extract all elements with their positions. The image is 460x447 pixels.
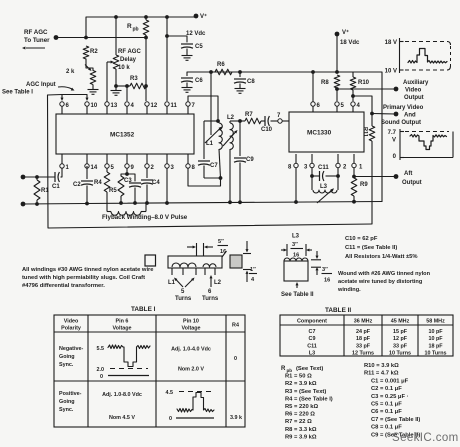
svg-text:Nom 2.0 V: Nom 2.0 V	[178, 367, 204, 373]
ground under C5	[182, 56, 193, 61]
label L1 5 turns	[168, 278, 195, 303]
svg-text:Delay: Delay	[120, 57, 137, 63]
svg-text:R1: R1	[41, 188, 49, 194]
capacitor C8	[234, 72, 255, 88]
capacitor C4	[141, 168, 160, 203]
terminal auxiliary video output	[394, 80, 429, 101]
table I	[54, 306, 245, 427]
terminal aft output	[394, 171, 422, 186]
note wound with	[337, 271, 431, 293]
svg-text:C6 = 0.1 μF: C6 = 0.1 μF	[371, 409, 402, 415]
svg-text:tuned with high permiability s: tuned with high permiability slugs. Coil…	[22, 275, 145, 281]
wire pin2 drop	[336, 168, 340, 178]
svg-text:V: V	[392, 138, 396, 144]
svg-text:4: 4	[251, 277, 255, 283]
svg-text:Sound Output: Sound Output	[381, 120, 421, 126]
svg-text:#4796 differential transformer: #4796 differential transformer.	[22, 283, 105, 289]
svg-text:Adj. 1.0-4.0 Vdc: Adj. 1.0-4.0 Vdc	[171, 347, 211, 353]
svg-text:Turns: Turns	[175, 296, 192, 302]
arrow into pin 6	[60, 95, 63, 102]
svg-text:Voltage: Voltage	[181, 326, 200, 332]
svg-text:11: 11	[171, 103, 178, 109]
dimension 1/4 square	[243, 241, 257, 283]
svg-text:TABLE I: TABLE I	[131, 306, 156, 313]
svg-text:R11: R11	[362, 127, 368, 137]
wire ground rail	[23, 200, 382, 206]
svg-text:18 Vdc: 18 Vdc	[340, 40, 360, 46]
svg-text:R8: R8	[321, 80, 329, 86]
arrow L3 slug	[317, 188, 334, 203]
svg-text:RF AGC: RF AGC	[24, 29, 48, 36]
MC1330 pin 7	[277, 113, 289, 123]
svg-text:L2: L2	[214, 280, 222, 286]
svg-text:See Table I: See Table I	[2, 90, 33, 96]
capacitor C7	[198, 121, 218, 178]
svg-text:6: 6	[66, 103, 70, 109]
svg-text:C5 = 0.1 μF: C5 = 0.1 μF	[371, 402, 402, 408]
terminal V+ 12 Vdc	[186, 13, 207, 37]
svg-text:Sync.: Sync.	[59, 362, 74, 368]
svg-text:pb: pb	[287, 368, 293, 373]
resistor R4	[94, 168, 110, 203]
svg-text:L3: L3	[320, 184, 328, 190]
svg-text:36 MHz: 36 MHz	[354, 319, 373, 325]
winding diagram small square	[145, 255, 156, 266]
resistor R3	[116, 76, 148, 89]
svg-text:R2: R2	[90, 49, 98, 55]
svg-text:Adj. 1.0-8.0 Vdc: Adj. 1.0-8.0 Vdc	[102, 392, 142, 398]
svg-text:Auxiliary: Auxiliary	[403, 80, 429, 86]
notes right column	[345, 236, 418, 260]
svg-text:Output: Output	[402, 180, 422, 186]
wire R10 to primary junction	[353, 96, 374, 115]
wire MC1330 pin6 riser	[312, 72, 314, 102]
svg-text:C7: C7	[210, 163, 218, 169]
svg-text:R7: R7	[245, 112, 253, 118]
inductor L1	[206, 121, 222, 178]
terminal RF AGC to tuner	[22, 29, 58, 50]
wire RF AGC delay feed	[115, 17, 117, 55]
svg-text:(See Text): (See Text)	[296, 366, 323, 372]
svg-text:10 Turns: 10 Turns	[389, 351, 411, 357]
svg-text:0: 0	[100, 374, 103, 380]
svg-text:C7 = (See Table II): C7 = (See Table II)	[371, 417, 420, 423]
terminal primary video and sound output	[381, 105, 424, 126]
svg-text:Video: Video	[405, 88, 422, 94]
capacitor C11	[312, 165, 338, 181]
svg-text:18 pF: 18 pF	[428, 343, 443, 349]
flyback winding loop	[107, 203, 146, 215]
svg-text:R6: R6	[217, 62, 225, 68]
svg-text:R3: R3	[130, 76, 138, 82]
svg-text:winding.: winding.	[337, 287, 361, 293]
winding diagram bobbin	[168, 256, 222, 268]
svg-text:5″: 5″	[218, 239, 224, 245]
svg-text:R2 = 3.9 kΩ: R2 = 3.9 kΩ	[285, 381, 317, 387]
ground under delay pot	[111, 86, 122, 95]
svg-text:C3: C3	[124, 178, 132, 184]
label AGC input	[2, 82, 75, 96]
svg-text:R7 = 22 Ω: R7 = 22 Ω	[285, 419, 312, 425]
svg-text:All windings #30 AWG tinned ny: All windings #30 AWG tinned nylon acetat…	[22, 267, 154, 273]
svg-text:R1 = 50 Ω: R1 = 50 Ω	[285, 374, 312, 380]
svg-text:10 pF: 10 pF	[428, 329, 443, 335]
wire pin7 to tank	[188, 96, 220, 123]
svg-text:18 V: 18 V	[385, 40, 397, 46]
svg-text:7.7: 7.7	[388, 130, 397, 136]
label see table II	[281, 282, 314, 298]
svg-text:5: 5	[181, 289, 185, 295]
table II	[280, 307, 453, 357]
MC1330 bottom pins 8 3 2 1	[288, 154, 363, 171]
svg-text:RF AGC: RF AGC	[118, 49, 141, 55]
wire C1 to pin1	[61, 168, 63, 177]
svg-text:10 pF: 10 pF	[428, 336, 443, 342]
capacitor C1 plates	[23, 172, 62, 182]
svg-text:To Tuner: To Tuner	[24, 37, 50, 44]
svg-text:C2: C2	[73, 182, 81, 188]
capacitor C3	[124, 174, 141, 203]
svg-text:C11: C11	[318, 165, 329, 171]
svg-text:Component: Component	[297, 319, 327, 325]
wire pin8 to rail	[295, 168, 297, 203]
svg-text:1: 1	[359, 165, 363, 171]
svg-text:R5 = 220 kΩ: R5 = 220 kΩ	[285, 404, 319, 410]
wire aft output	[354, 176, 396, 178]
svg-text:R: R	[281, 366, 286, 372]
svg-text:Polarity: Polarity	[61, 326, 81, 332]
svg-text:R10: R10	[358, 80, 370, 86]
arrow into pin 10	[85, 95, 88, 102]
svg-text:R4: R4	[94, 180, 102, 186]
resistor R5	[109, 174, 127, 203]
svg-text:R8 = 3.3 kΩ: R8 = 3.3 kΩ	[285, 427, 317, 433]
svg-text:5: 5	[341, 103, 345, 109]
wire pin12 riser	[145, 38, 147, 102]
capacitor C5	[167, 36, 203, 55]
svg-text:0: 0	[393, 154, 397, 160]
svg-text:24 pF: 24 pF	[356, 329, 371, 335]
svg-text:3: 3	[171, 165, 175, 171]
svg-text:R11 = 4.7 kΩ: R11 = 4.7 kΩ	[364, 371, 399, 377]
resistor R9	[351, 168, 368, 202]
inductor L2	[227, 115, 235, 202]
svg-text:Output: Output	[404, 95, 424, 101]
capacitor C9	[234, 121, 254, 202]
MC1352 top pins 6 10 13 4 12 11 7	[60, 102, 196, 114]
note windings left	[22, 267, 154, 289]
resistor R10	[350, 72, 369, 101]
wire pin11 riser	[165, 17, 169, 101]
svg-text:12 Turns: 12 Turns	[352, 351, 374, 357]
svg-text:3: 3	[304, 165, 308, 171]
svg-text:V⁺: V⁺	[200, 13, 207, 20]
svg-text:4: 4	[131, 103, 135, 109]
svg-text:C8: C8	[247, 79, 255, 85]
wire auxiliary video output	[337, 88, 396, 90]
svg-text:C4: C4	[152, 180, 160, 186]
capacitor C10	[261, 116, 278, 133]
svg-text:10 k: 10 k	[118, 65, 130, 71]
svg-text:4.5: 4.5	[166, 390, 174, 396]
wire +12V top rail	[86, 15, 196, 38]
wire pot bottom	[114, 69, 118, 88]
svg-text:Primary Video: Primary Video	[383, 105, 424, 111]
svg-text:acetate wire tuned by distorti: acetate wire tuned by distorting	[338, 279, 423, 285]
wire 18V distribution rail	[187, 70, 382, 201]
watermark	[392, 432, 459, 444]
svg-text:0: 0	[169, 416, 172, 422]
svg-text:33 pF: 33 pF	[356, 343, 371, 349]
svg-text:3″: 3″	[292, 242, 298, 248]
svg-text:Positive-: Positive-	[59, 391, 82, 397]
capacitor C6	[181, 72, 203, 87]
potentiometer RF AGC Delay 10k	[107, 49, 141, 71]
svg-text:L2: L2	[227, 115, 235, 121]
winding lead wires	[172, 268, 215, 275]
svg-text:10 Turns: 10 Turns	[424, 351, 446, 357]
waveform composite video positive	[408, 49, 447, 64]
svg-text:C10 = 62 pF: C10 = 62 pF	[345, 236, 378, 242]
capacitor C2	[73, 166, 93, 204]
svg-text:58 MHz: 58 MHz	[426, 319, 445, 325]
svg-text:Flyback Winding–8.0 V Pulse: Flyback Winding–8.0 V Pulse	[102, 214, 188, 221]
L3 dimension 3/16 top	[281, 242, 312, 259]
svg-text:pb: pb	[133, 27, 139, 33]
svg-text:C5: C5	[195, 44, 203, 50]
svg-text:C3 = 0.25 μF ·: C3 = 0.25 μF ·	[371, 394, 409, 400]
svg-text:2: 2	[343, 165, 347, 171]
resistor R6	[215, 62, 232, 75]
svg-text:7: 7	[192, 103, 196, 109]
MC1330 top pins 6 5 4	[311, 102, 361, 112]
svg-text:3″: 3″	[322, 267, 328, 273]
svg-text:Turns: Turns	[202, 296, 219, 302]
svg-text:Negative-: Negative-	[59, 346, 83, 352]
svg-text:13: 13	[111, 103, 118, 109]
svg-text:3.9 k: 3.9 k	[230, 415, 242, 421]
svg-text:2: 2	[151, 165, 155, 171]
arrow L2 slug	[223, 130, 238, 146]
svg-text:C9: C9	[309, 336, 316, 342]
svg-text:Wound with #26 AWG tinned nylo: Wound with #26 AWG tinned nylon	[338, 271, 431, 277]
svg-text:7: 7	[277, 113, 281, 119]
svg-text:TABLE II: TABLE II	[325, 307, 351, 314]
resistor R11	[362, 114, 375, 225]
svg-text:See Table II: See Table II	[281, 292, 314, 298]
wire AGC input	[48, 94, 88, 97]
resistor Rpb	[127, 17, 149, 38]
wire primary video output	[372, 113, 396, 116]
winding L1 turns	[172, 263, 196, 267]
wire AGC feedback bottom line	[48, 95, 373, 228]
svg-text:C10: C10	[261, 127, 273, 133]
L3 winding form	[284, 261, 308, 281]
winding L2 turns	[203, 264, 216, 267]
svg-text:L3: L3	[309, 351, 315, 357]
wire input top	[35, 175, 39, 179]
svg-text:10: 10	[91, 103, 98, 109]
MC1352 bottom pins 1 14 5 9 2 3 8	[60, 154, 196, 171]
svg-text:8: 8	[288, 165, 292, 171]
L3 winding coil	[284, 258, 308, 261]
inductor L3 variable	[312, 176, 338, 193]
svg-text:45 MHz: 45 MHz	[391, 319, 410, 325]
svg-text:R9: R9	[360, 182, 368, 188]
svg-text:12: 12	[151, 103, 158, 109]
svg-text:SeekIC.com: SeekIC.com	[392, 432, 459, 444]
svg-text:C11 = (See Table II): C11 = (See Table II)	[345, 245, 397, 251]
label flyback winding	[102, 214, 188, 221]
svg-text:Pin 10: Pin 10	[183, 319, 199, 325]
potentiometer 2k	[66, 59, 96, 85]
svg-text:C7: C7	[309, 329, 316, 335]
svg-text:2 k: 2 k	[66, 69, 75, 75]
wire pin13 wiper	[106, 62, 108, 102]
label L2 6 turns	[202, 275, 222, 302]
waveform box aft output	[388, 129, 453, 160]
wire pin3 drop	[310, 168, 314, 178]
wire tank bottom	[204, 176, 222, 180]
svg-text:L1: L1	[206, 141, 214, 147]
svg-text:C11: C11	[307, 343, 317, 349]
table I positive sync waveform	[166, 390, 215, 422]
svg-text:C2 = 0.1 μF: C2 = 0.1 μF	[371, 386, 402, 392]
L3 dimension 3/16 right	[311, 251, 332, 284]
ground under C6	[182, 88, 193, 93]
svg-text:All Resistors 1/4-Watt ±5%: All Resistors 1/4-Watt ±5%	[345, 254, 418, 260]
svg-text:Voltage: Voltage	[112, 326, 131, 332]
svg-text:5: 5	[111, 165, 115, 171]
svg-text:15 pF: 15 pF	[393, 329, 408, 335]
resistor R8	[321, 75, 340, 91]
resistor R2	[83, 46, 98, 59]
svg-text:Going: Going	[59, 354, 75, 360]
svg-text:C1 = 0.001 μF: C1 = 0.001 μF	[371, 378, 409, 384]
svg-text:12 Vdc: 12 Vdc	[186, 31, 206, 37]
winding diagram gray square	[230, 255, 242, 268]
svg-text:1″: 1″	[250, 267, 256, 273]
svg-text:R5: R5	[109, 188, 117, 194]
svg-text:Sync.: Sync.	[59, 407, 74, 413]
terminal input top	[21, 175, 26, 180]
svg-text:14: 14	[91, 165, 98, 171]
svg-text:MC1330: MC1330	[307, 130, 332, 137]
svg-text:12 pF: 12 pF	[393, 336, 408, 342]
svg-text:R: R	[127, 23, 132, 30]
svg-text:10 V: 10 V	[385, 69, 397, 75]
svg-text:33 pF: 33 pF	[393, 343, 408, 349]
svg-text:Video: Video	[64, 319, 79, 325]
dimension 5/16 between windings	[187, 239, 228, 257]
L3 winding diagram label	[292, 234, 300, 240]
table I negative sync waveform	[97, 345, 151, 380]
svg-text:L1: L1	[168, 280, 176, 286]
svg-text:Pin 6: Pin 6	[116, 319, 129, 325]
svg-text:9: 9	[131, 165, 135, 171]
svg-text:L3: L3	[292, 234, 300, 240]
svg-text:R4 = (See Table I): R4 = (See Table I)	[285, 396, 333, 402]
resistor R1	[34, 177, 49, 204]
wire R8 to pin5	[336, 89, 338, 101]
svg-text:1: 1	[66, 165, 70, 171]
svg-text:AGC Input: AGC Input	[26, 82, 56, 88]
svg-text:18 pF: 18 pF	[356, 336, 371, 342]
svg-text:R6 = 220 Ω: R6 = 220 Ω	[285, 412, 315, 418]
svg-text:0: 0	[234, 356, 237, 362]
IC MC1330	[289, 112, 364, 152]
resistor R7	[245, 112, 261, 124]
svg-text:4: 4	[357, 103, 361, 109]
svg-text:V⁺: V⁺	[342, 29, 349, 36]
capacitor C1	[52, 184, 60, 190]
wire pin4 riser	[126, 86, 128, 101]
waveform composite video negative	[410, 135, 447, 150]
svg-text:R10 = 3.9 kΩ: R10 = 3.9 kΩ	[364, 363, 399, 369]
arrow L1 slug	[205, 127, 222, 144]
svg-text:C1: C1	[52, 184, 60, 190]
wire pin8 to tank	[188, 168, 221, 186]
component value list	[281, 363, 420, 440]
wire L1 tap	[210, 72, 212, 135]
svg-text:C8 = 0.1 μF: C8 = 0.1 μF	[371, 425, 402, 431]
svg-text:C9: C9	[246, 157, 254, 163]
svg-text:5.5: 5.5	[97, 346, 105, 352]
wire L2 top to R7	[230, 119, 245, 123]
svg-text:2.0: 2.0	[97, 367, 105, 373]
svg-text:Aft: Aft	[404, 171, 412, 177]
svg-text:R4: R4	[232, 323, 239, 329]
ground under C8	[235, 89, 246, 94]
svg-text:R3 = (See Text): R3 = (See Text)	[285, 389, 326, 395]
waveform box auxiliary output	[385, 38, 451, 75]
svg-text:C6: C6	[195, 78, 203, 84]
svg-text:MC1352: MC1352	[110, 132, 135, 139]
svg-text:8: 8	[192, 165, 196, 171]
IC MC1352	[56, 114, 194, 154]
svg-text:R9 = 3.9 kΩ: R9 = 3.9 kΩ	[285, 434, 317, 440]
wire pin3 to rail	[166, 168, 168, 203]
svg-text:Nom 4.5 V: Nom 4.5 V	[109, 415, 135, 421]
svg-text:Going: Going	[59, 399, 75, 405]
terminal input bottom	[21, 202, 26, 207]
svg-text:16: 16	[324, 278, 330, 284]
wire RF AGC line	[56, 36, 148, 40]
wire pin9 junction	[125, 168, 129, 176]
ground under 2k pot	[88, 85, 99, 95]
svg-text:And: And	[404, 113, 416, 119]
terminal V+ 18 Vdc	[335, 29, 360, 72]
svg-text:6: 6	[317, 103, 321, 109]
svg-text:6: 6	[208, 289, 212, 295]
